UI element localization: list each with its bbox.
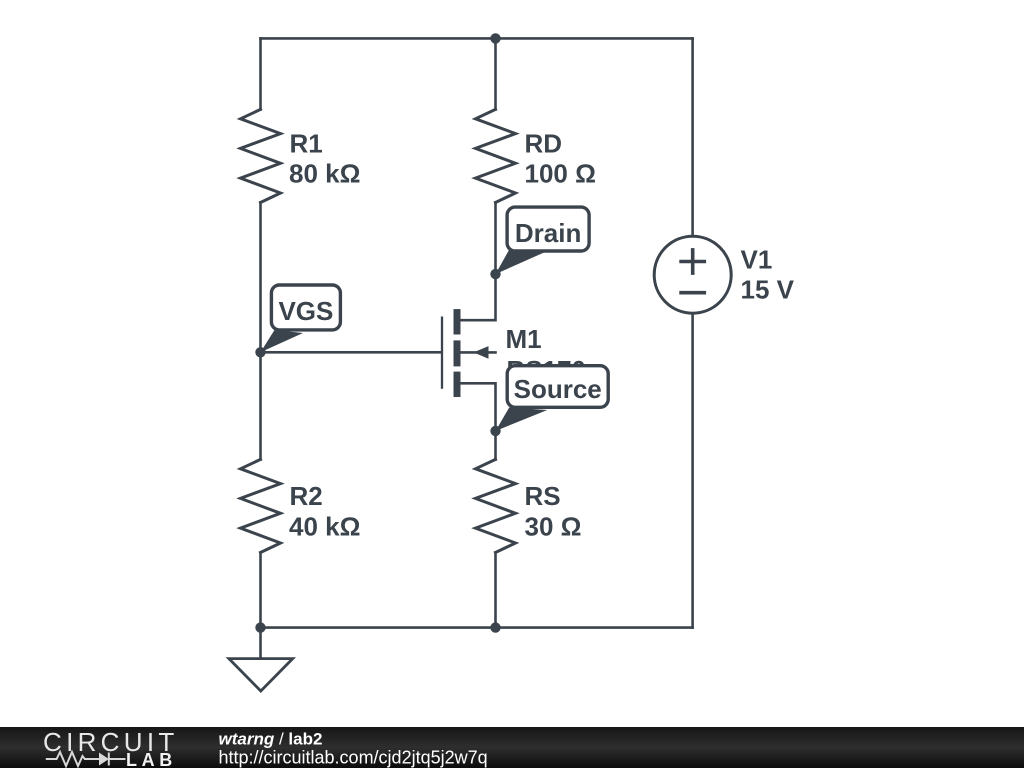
- svg-text:VGS: VGS: [278, 296, 333, 326]
- svg-text:R1: R1: [290, 129, 323, 159]
- svg-text:30 Ω: 30 Ω: [525, 511, 582, 541]
- svg-text:Drain: Drain: [515, 218, 581, 248]
- svg-text:100 Ω: 100 Ω: [525, 158, 596, 188]
- svg-text:LAB: LAB: [126, 750, 177, 768]
- svg-text:40 kΩ: 40 kΩ: [289, 511, 360, 541]
- svg-text:RS: RS: [525, 481, 561, 511]
- svg-text:http://circuitlab.com/cjd2jtq5: http://circuitlab.com/cjd2jtq5j2w7q: [219, 748, 488, 768]
- svg-text:M1: M1: [506, 324, 542, 354]
- svg-text:wtarng / lab2: wtarng / lab2: [219, 730, 323, 749]
- svg-text:80 kΩ: 80 kΩ: [289, 158, 360, 188]
- svg-text:R2: R2: [290, 481, 323, 511]
- svg-text:RD: RD: [525, 129, 563, 159]
- svg-text:V1: V1: [741, 244, 773, 274]
- svg-text:15 V: 15 V: [741, 275, 795, 305]
- svg-text:Source: Source: [514, 374, 602, 404]
